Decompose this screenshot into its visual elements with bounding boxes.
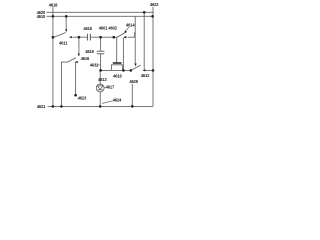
node dot bottom rail-left	[52, 105, 55, 108]
node dot bus2-left rail	[52, 15, 55, 18]
svg-text:4617: 4617	[106, 85, 115, 90]
svg-text:4616: 4616	[113, 73, 122, 78]
wire control of left-lower switch from storage node	[78, 37, 80, 54]
switch S1 blade 4611	[54, 33, 66, 38]
transistor Q1 channel bump	[112, 65, 123, 71]
svg-text:4622: 4622	[150, 2, 159, 7]
wire control drop to lower switch from data bus	[134, 16, 136, 63]
node dot terminal 4623	[74, 94, 77, 97]
node dot data bus right end	[151, 15, 154, 18]
switch upper-right blade 4614	[117, 32, 126, 37]
arrowhead control left-lower switch	[78, 54, 80, 57]
svg-text:4614: 4614	[126, 23, 135, 28]
node dot lower switch pivot	[130, 69, 133, 72]
leader 4624	[102, 101, 113, 104]
wire scan bus 4620	[47, 11, 154, 13]
svg-text:4601: 4601	[99, 25, 108, 30]
node dot control 4611 on data bus	[65, 15, 68, 18]
leader 4621	[48, 105, 49, 107]
transistor Q1 gate bar	[113, 62, 122, 64]
wire drop from upper switch contact to y70 row	[122, 38, 124, 70]
node dot bottom diode	[99, 105, 102, 108]
capacitor C2 4619 vertical leads	[100, 37, 102, 70]
arrowhead control lower switch	[134, 64, 136, 67]
arrowhead contact 4611	[69, 36, 72, 38]
node dot switch corner	[52, 36, 55, 39]
svg-text:4612: 4612	[141, 73, 150, 78]
svg-text:4616: 4616	[81, 56, 90, 61]
svg-text:4621: 4621	[37, 104, 46, 109]
svg-text:4625: 4625	[129, 79, 138, 84]
node dot gate node	[112, 36, 115, 39]
diode D1 triangle	[97, 86, 103, 89]
wire branch from scan bus down to lower switch contact	[143, 12, 145, 70]
diode D1 cathode bar	[98, 89, 103, 91]
svg-text:4613: 4613	[98, 77, 107, 82]
node dot scan bus branch	[143, 11, 146, 14]
node dot y70 left	[99, 69, 102, 72]
wire left rail from label 4618 down to bottom bus	[52, 7, 54, 106]
node dot y70 right rail	[152, 69, 155, 72]
svg-text:4623: 4623	[78, 96, 87, 101]
svg-text:4624: 4624	[113, 97, 122, 102]
wire source-drain row y70	[101, 69, 153, 71]
svg-text:4632: 4632	[90, 62, 99, 67]
wire storage node row	[53, 32, 135, 37]
svg-text:4618: 4618	[49, 2, 58, 7]
transistor Q1 gate lead	[116, 37, 118, 62]
leader 4617	[104, 87, 106, 90]
capacitor C1 4615 series plates	[88, 34, 91, 41]
leader 4614 arrow shaft	[125, 27, 129, 32]
node dot y70 drop	[122, 69, 125, 72]
node dot cap column top	[99, 36, 102, 39]
capacitor C2 4619 plates	[97, 51, 105, 54]
arrowhead leader 4614	[124, 30, 127, 32]
wire bottom ground bus	[49, 105, 154, 107]
arrowhead control 4611	[65, 29, 67, 32]
node dot bottom x61	[60, 105, 63, 108]
arrowhead contact left-lower switch	[75, 61, 78, 63]
wire left output column corner	[61, 62, 67, 106]
wire drop from left-lower switch contact to terminal dot	[75, 62, 77, 95]
wire data bus 4610	[47, 15, 153, 17]
svg-text:4615: 4615	[83, 26, 92, 31]
leader 4632	[97, 64, 100, 66]
node dot storage control	[78, 36, 81, 39]
wire stub 4625 to bottom bus	[131, 84, 133, 107]
diode D1 top lead	[99, 70, 101, 85]
arrowhead contact upper switch	[123, 36, 126, 38]
arrowhead contact lower switch	[142, 69, 145, 71]
diode D1 circle	[96, 84, 104, 92]
wire right rail 4622	[152, 7, 154, 107]
diode D1 bottom lead	[99, 92, 101, 107]
svg-text:4611: 4611	[59, 40, 68, 45]
svg-text:4610: 4610	[37, 14, 46, 19]
switch left-lower blade 4616	[68, 58, 76, 62]
svg-text:4602: 4602	[108, 25, 117, 30]
svg-text:4619: 4619	[85, 49, 94, 54]
switch lower-right blade 4612	[131, 65, 141, 70]
node dot bottom stub 4625	[131, 105, 134, 108]
wire control of 4611 from data bus	[65, 16, 67, 29]
